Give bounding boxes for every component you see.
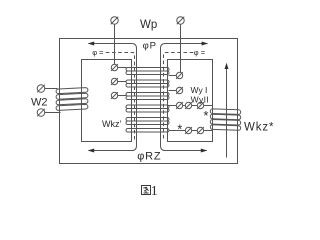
svg-text:*: * (203, 108, 208, 123)
svg-text:φ =: φ = (194, 48, 206, 57)
svg-text:Wkz*: Wkz* (244, 122, 274, 134)
svg-text:W2: W2 (31, 97, 48, 109)
svg-text:Wy I: Wy I (191, 85, 208, 95)
svg-text:*: * (177, 122, 182, 137)
svg-text:φRZ: φRZ (137, 151, 161, 163)
svg-text:φ =: φ = (92, 48, 104, 57)
svg-text:φP: φP (143, 40, 157, 51)
svg-text:1: 1 (151, 184, 158, 199)
svg-text:Wkz’: Wkz’ (102, 119, 122, 129)
svg-text:WyII: WyII (191, 95, 210, 105)
svg-text:Wp: Wp (140, 19, 157, 31)
